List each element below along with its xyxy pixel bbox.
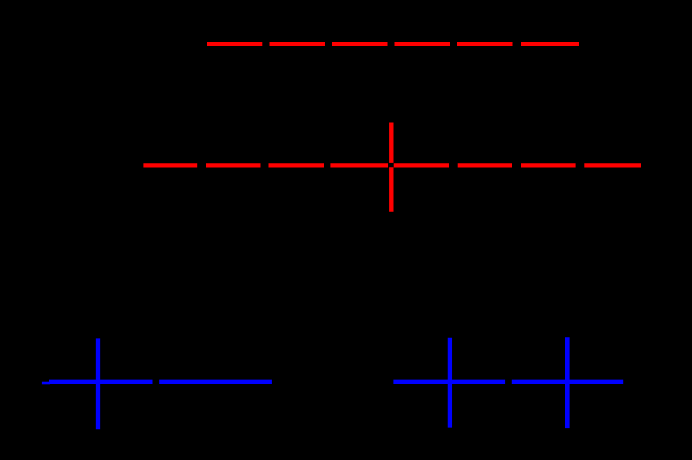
middle red dashed axis: dash 4: [330, 163, 388, 167]
middle red dashed axis: dash 8: [584, 163, 641, 167]
red vertical crosshair: upper segment: [389, 123, 393, 163]
blue right cross A: vertical bar: [448, 338, 452, 428]
middle red dashed axis: dash 7: [521, 163, 576, 167]
blue left horizontal axis: segment 2: [159, 380, 272, 384]
middle red dashed axis: dash 1: [143, 163, 197, 167]
top red dashed beam: dash 1: [207, 42, 262, 46]
top red dashed beam: dash 3: [332, 42, 388, 46]
blue left cross: vertical bar: [96, 338, 100, 429]
top red dashed beam: dash 4: [395, 42, 451, 46]
red vertical crosshair: lower segment: [389, 167, 393, 211]
blue right horizontal axis: segment 2: [512, 380, 623, 384]
top red dashed beam: dash 5: [457, 42, 513, 46]
middle red dashed axis: dash 2: [206, 163, 261, 167]
blue right horizontal axis: segment 1: [393, 380, 505, 384]
middle red dashed axis: dash 5: [394, 163, 449, 167]
middle red dashed axis: dash 3: [269, 163, 325, 167]
middle red dashed axis: dash 6: [458, 163, 512, 167]
top red dashed beam: dash 2: [270, 42, 326, 46]
blue right cross B: vertical bar: [565, 337, 570, 428]
blue left horizontal axis: segment 1 thin left tip: [42, 382, 50, 385]
top red dashed beam: dash 6: [521, 42, 579, 46]
blue left horizontal axis: segment 1: [49, 380, 153, 384]
